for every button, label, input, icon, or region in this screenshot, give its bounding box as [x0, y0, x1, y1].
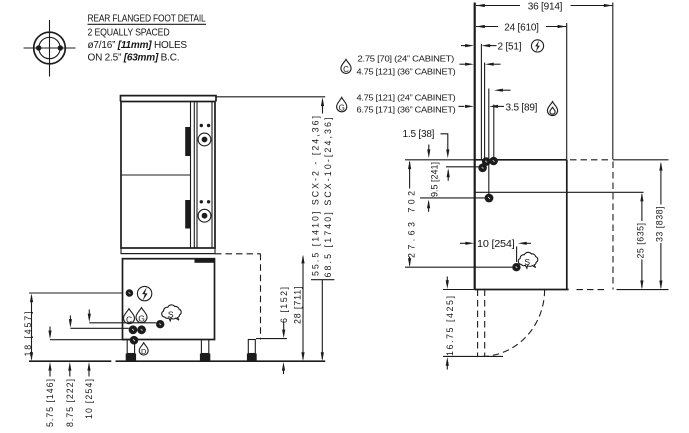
- connection dot B (top row): [489, 157, 498, 166]
- control panel line 2: [196, 102, 198, 249]
- svg-text:ON 2.5” [63mm] B.C.: ON 2.5” [63mm] B.C.: [88, 53, 180, 64]
- control panel line 1: [193, 102, 195, 249]
- dashed 36in base right edge: [260, 254, 262, 340]
- door right edge: [190, 102, 192, 249]
- foot detail hole right: [58, 45, 63, 50]
- svg-text:2 EQUALLY SPACED: 2 EQUALLY SPACED: [88, 28, 170, 39]
- shared tick: [311, 279, 334, 281]
- lower knob: [198, 209, 211, 222]
- below-ground arrow 10: [88, 369, 90, 377]
- base top vent tab: [195, 259, 215, 262]
- bottom edge + left extension: [443, 289, 475, 291]
- svg-text:36 [914]: 36 [914]: [528, 1, 563, 12]
- svg-text:18 [457]: 18 [457]: [23, 312, 33, 357]
- connection row extension line: [446, 166, 481, 168]
- leader line drain (5.75 in): [50, 339, 130, 341]
- svg-text:16.75 [425]: 16.75 [425]: [445, 296, 455, 356]
- connection dot C (below): [478, 164, 487, 173]
- drain connection dot: [130, 336, 139, 345]
- plumbing line 3 (gas, to lower dot): [488, 89, 490, 195]
- tick arrow for line 4: [503, 89, 511, 91]
- foot detail inner circle: [39, 37, 60, 58]
- plumbing line 2 (cold water): [484, 63, 486, 161]
- 24in front extension line: [566, 23, 568, 160]
- dim 24 [610]: [476, 26, 566, 28]
- upper knob: [198, 133, 211, 146]
- svg-text:2.75 [70] (24” CABINET): 2.75 [70] (24” CABINET): [358, 54, 455, 64]
- open door dashed line 2: [484, 290, 486, 357]
- upper door handle: [185, 127, 190, 156]
- dim 33 [838]: [660, 164, 662, 288]
- door bottom extension: [443, 355, 503, 357]
- ground line: [29, 360, 325, 362]
- svg-text:24 [610]: 24 [610]: [504, 22, 539, 33]
- top extension line to height dims: [216, 96, 325, 98]
- svg-text:4.75 [121] (36” CABINET): 4.75 [121] (36” CABINET): [357, 67, 456, 77]
- svg-text:25 [635]: 25 [635]: [636, 223, 646, 259]
- water drop icon G (labels): [337, 97, 347, 112]
- water drop icon C (labels): [341, 59, 351, 74]
- dim 28 [711]: [302, 257, 304, 360]
- dashed 36in front edge: [612, 162, 614, 290]
- plumbing line 1 (electrical, 2in): [480, 44, 482, 160]
- water drop icon G: [136, 308, 147, 324]
- inner line (25in level) + extension: [475, 191, 644, 193]
- electrical icon (circle + bolt), front view: [137, 286, 151, 300]
- control panel line 3: [211, 102, 213, 249]
- svg-text:1.5 [38]: 1.5 [38]: [403, 129, 435, 140]
- gas row extension line: [420, 197, 485, 199]
- steam connection dot (side): [512, 263, 520, 271]
- gas/hot water connection dot: [137, 325, 146, 334]
- door swing dashed arc: [481, 290, 545, 357]
- foot 3 leg (36in dashed cabinet): [248, 340, 255, 354]
- ext line for 6in dim: [256, 338, 287, 340]
- dim 2 [51] row: [461, 45, 466, 47]
- dim 6 [152]: [283, 323, 285, 331]
- foot 2 pad: [200, 354, 210, 361]
- bottom extension right: [617, 289, 669, 291]
- foot detail crosshair vertical: [49, 20, 51, 77]
- svg-text:C: C: [343, 65, 349, 74]
- leader line water C/G (8.75 in): [70, 327, 128, 329]
- connection dot A (top row): [482, 157, 491, 166]
- svg-text:9.5 [241]: 9.5 [241]: [429, 162, 439, 197]
- bottom edge dashed (36in): [577, 289, 608, 291]
- top edge dashed (36in): [570, 159, 612, 161]
- foot 1 leg: [127, 340, 134, 354]
- plumbing line 4 (hot water): [493, 105, 495, 159]
- svg-text:REAR FLANGED FOOT DETAIL: REAR FLANGED FOOT DETAIL: [88, 14, 207, 25]
- svg-text:S: S: [524, 257, 530, 267]
- foot 2 leg: [201, 340, 208, 354]
- open door dashed line 1: [477, 290, 479, 357]
- svg-text:8.75 [222]: 8.75 [222]: [65, 379, 75, 427]
- foot 3 pad: [247, 354, 257, 361]
- foot 1 pad: [126, 354, 136, 361]
- dim row 4.75/6.75 (G): [459, 105, 465, 107]
- svg-text:27.63 702: 27.63 702: [406, 191, 416, 258]
- svg-text:2 [51]: 2 [51]: [498, 42, 522, 53]
- title underline: [88, 23, 207, 25]
- top edge extension left: [405, 159, 475, 161]
- steam connection dot (front): [156, 320, 164, 328]
- steam cloud icon S (side): [518, 252, 537, 268]
- electrical connection dot (front): [126, 289, 134, 297]
- lower door handle: [185, 200, 190, 229]
- upper knob indicator dots: [200, 124, 203, 127]
- water drop icon C: [124, 309, 135, 325]
- foot detail outer circle: [34, 32, 66, 64]
- dim row 2.75/4.75 (C): [460, 63, 466, 65]
- steam cloud icon S (front): [162, 305, 181, 321]
- svg-text:33 [838]: 33 [838]: [654, 207, 664, 243]
- svg-text:5.75 [146]: 5.75 [146]: [45, 379, 55, 427]
- svg-text:28 [711]: 28 [711]: [293, 287, 303, 325]
- back edge + extension (thick): [474, 3, 476, 290]
- gas connection dot (side): [485, 194, 494, 203]
- svg-text:10 [254]: 10 [254]: [84, 379, 94, 419]
- svg-text:D: D: [141, 347, 147, 356]
- cabinet top band: [121, 96, 217, 102]
- 36in front extension line: [612, 3, 614, 160]
- cold water connection dot: [129, 325, 138, 334]
- foot detail crosshair horizontal: [24, 47, 76, 49]
- electrical icon (side view): [531, 40, 543, 52]
- svg-text:6.75 [171] (36” CABINET): 6.75 [171] (36” CABINET): [357, 105, 456, 115]
- water drop icon D (drain): [139, 343, 148, 356]
- svg-text:3.5 [89]: 3.5 [89]: [506, 102, 538, 113]
- counter band: [121, 248, 215, 254]
- dashed 36in base top extension: [215, 253, 261, 255]
- door divider: [121, 174, 191, 176]
- steam level extension/leader: [405, 266, 512, 268]
- svg-text:G: G: [339, 104, 345, 113]
- dim 10 [254]: [460, 242, 466, 244]
- foot detail hole left: [36, 45, 41, 50]
- svg-text:S: S: [168, 310, 174, 320]
- shared bottom segment: [321, 280, 323, 360]
- leader line steam (10 in): [89, 322, 156, 324]
- dim 27.63 [702]: [409, 162, 411, 189]
- base cabinet: [123, 259, 215, 340]
- below-ground arrow 5.75: [49, 369, 51, 377]
- water drop icon by 3.5 dim: [547, 102, 557, 116]
- lower knob indicator dots: [200, 200, 203, 203]
- counter line: [121, 253, 215, 255]
- front edge (24in): [566, 160, 568, 290]
- leader line electrical: [29, 292, 122, 294]
- svg-text:G: G: [138, 314, 145, 324]
- dim 18 [457] line: [31, 296, 33, 360]
- top edge extension right: [613, 159, 669, 161]
- dim 55.5 / 68.5 shared top segment: [322, 100, 324, 114]
- cabinet top edge: [475, 159, 567, 161]
- svg-text:10 [254]: 10 [254]: [477, 239, 515, 250]
- upper cabinet body: [121, 102, 215, 249]
- dim 25 [635]: [641, 194, 643, 287]
- svg-text:ø7/16” [11mm] HOLES: ø7/16” [11mm] HOLES: [88, 40, 188, 51]
- svg-text:4.75 [121] (24” CABINET): 4.75 [121] (24” CABINET): [357, 93, 456, 103]
- dim 16.75 [425]: [446, 277, 448, 282]
- below-ground arrow 8.75: [69, 369, 71, 377]
- dim 36 [914]: [476, 5, 613, 7]
